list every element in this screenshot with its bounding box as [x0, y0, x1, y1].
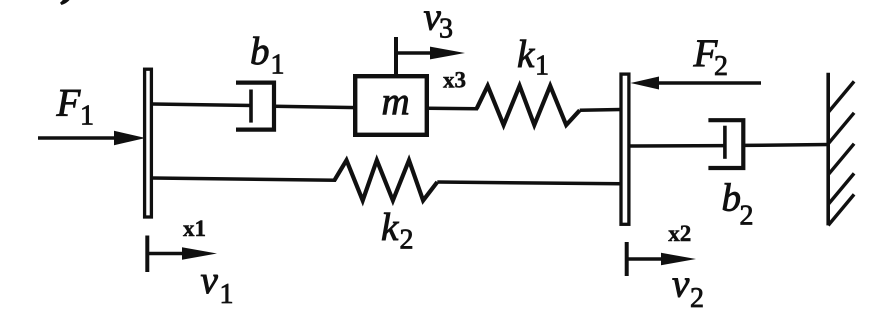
label v2 [672, 263, 704, 315]
wire: damper b2 to wall [743, 143, 829, 147]
svg-text:k: k [381, 206, 399, 249]
svg-text:x2: x2 [668, 221, 691, 246]
velocity arrow v1 [147, 236, 217, 273]
svg-text:3: 3 [439, 14, 453, 45]
label m [382, 81, 410, 124]
svg-text:b: b [722, 177, 742, 220]
wire: left plate to spring k2 [153, 178, 337, 180]
wire: spring k1 to right plate [580, 108, 621, 112]
svg-text:1: 1 [80, 101, 94, 132]
svg-text:2: 2 [400, 225, 414, 256]
svg-text:2: 2 [740, 201, 754, 232]
label v3 [424, 0, 454, 45]
svg-text:1: 1 [271, 50, 285, 81]
label b2 [722, 177, 754, 232]
wall (ground) [828, 73, 854, 226]
spring k2 [334, 160, 437, 200]
node label x1 [183, 216, 206, 241]
label k1 [517, 33, 549, 82]
damper b2 (piston) [723, 126, 727, 159]
svg-text:2: 2 [714, 51, 728, 82]
figure label fragment ")" [60, 0, 72, 5]
label b1 [250, 30, 285, 81]
svg-text:k: k [517, 33, 535, 76]
damper b1 (piston) [249, 90, 253, 123]
label v1 [201, 259, 234, 310]
node label x2 [668, 221, 691, 246]
plate node x1 (left massless plate) [145, 69, 152, 217]
plate node x2 (right massless plate) [621, 74, 629, 224]
wire: mass m to spring k1 [428, 107, 478, 111]
force arrow F1 [38, 131, 146, 145]
mass m (box) [355, 76, 427, 135]
wire: damper b1 to mass m [274, 106, 357, 107]
svg-text:1: 1 [220, 279, 234, 310]
svg-text:F: F [56, 82, 82, 125]
wire: right plate to damper b2 piston [631, 144, 727, 148]
velocity arrow v3 [396, 37, 465, 75]
svg-text:b: b [250, 30, 270, 73]
damper b2 (cylinder) [708, 120, 743, 168]
svg-text:x1: x1 [183, 216, 206, 241]
node label x3 [443, 68, 466, 93]
label F1 [56, 82, 95, 132]
svg-text:1: 1 [535, 51, 549, 82]
spring k1 [477, 86, 580, 125]
wire: left plate to damper b1 piston [153, 104, 253, 106]
svg-text:x3: x3 [443, 68, 466, 93]
damper b1 (cylinder) [236, 83, 274, 130]
wire: spring k2 to right plate [437, 182, 621, 184]
svg-text:2: 2 [690, 283, 704, 314]
svg-text:v: v [672, 263, 690, 306]
label F2 [693, 32, 729, 82]
label k2 [381, 206, 414, 256]
force arrow F2 [631, 77, 762, 90]
svg-text:m: m [382, 81, 410, 124]
svg-text:v: v [201, 259, 219, 302]
velocity arrow v2 [627, 242, 696, 276]
